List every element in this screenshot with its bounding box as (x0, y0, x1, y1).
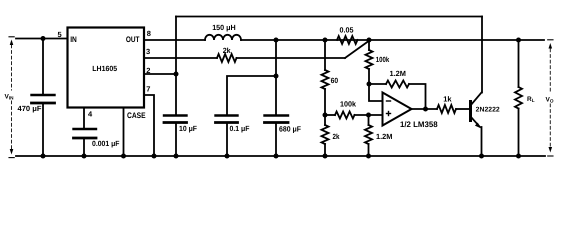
svg-text:OUT: OUT (126, 35, 140, 44)
svg-text:1.2M: 1.2M (376, 132, 393, 141)
svg-text:100k: 100k (340, 100, 357, 109)
svg-text:470 μF: 470 μF (18, 104, 42, 113)
wire pin4 stub (83, 108, 85, 130)
svg-text:IN: IN (70, 35, 77, 44)
Vin dimension arrow (11, 45, 13, 149)
wire IC ground stub (123, 108, 125, 157)
wire emitter to ground (481, 127, 483, 156)
op-amp U2 1/2 LM358 (383, 93, 412, 126)
wire inductor to output (241, 39, 544, 41)
wire pin3 sense line (144, 57, 217, 59)
svg-text:2k: 2k (333, 132, 341, 141)
node minus input junction (367, 82, 372, 87)
svg-text:60: 60 (331, 76, 339, 85)
svg-text:VO: VO (546, 97, 554, 104)
node inductor output junction (274, 38, 279, 43)
op-amp U1 box: regulator LH1605 (68, 28, 145, 108)
wire divider drop (324, 40, 326, 70)
node plus input junction (366, 113, 371, 118)
node shunt left junction (323, 38, 328, 43)
capacitor C3 10uF (164, 114, 187, 116)
capacitor C1 470uF (42, 39, 44, 96)
node pin2 junction (174, 72, 179, 77)
wire 100k to plus input (355, 114, 383, 116)
svg-text:1k: 1k (443, 95, 452, 104)
resistor R1 2k (pin3) (217, 54, 237, 62)
svg-text:1/2 LM358: 1/2 LM358 (400, 120, 438, 129)
wire pin8 output line (144, 39, 205, 41)
resistor R4 2k (322, 125, 329, 144)
capacitor C4 0.1uF (216, 114, 238, 116)
svg-text:7: 7 (146, 84, 150, 93)
inductor L1 150uH (205, 35, 241, 40)
svg-text:100k: 100k (376, 55, 390, 64)
resistor R5 100k horizontal (325, 114, 335, 116)
wire RL to ground (518, 109, 520, 157)
wire 1k to base (456, 108, 470, 110)
resistor R7 100k vertical (368, 40, 370, 50)
capacitor C5 680uF (265, 114, 289, 116)
svg-text:0.001 μF: 0.001 μF (92, 139, 120, 148)
resistor R9 1k (437, 105, 456, 113)
svg-text:LH1605: LH1605 (92, 64, 117, 73)
wire ground rail (16, 155, 545, 157)
wire op-amp output (412, 108, 438, 110)
svg-text:2N2222: 2N2222 (476, 106, 500, 113)
svg-text:1.2M: 1.2M (390, 69, 407, 78)
resistor R8 1.2M feedback (369, 83, 386, 85)
wire feedback to output (409, 84, 426, 109)
svg-text:5: 5 (58, 30, 62, 39)
svg-text:8: 8 (147, 29, 151, 38)
wire 680uF drop (275, 40, 277, 116)
wire diagonal sense tap (345, 41, 369, 58)
wire 2k to ground (324, 144, 326, 156)
capacitor C2 0.001uF (74, 128, 97, 130)
wire 60 to node (324, 89, 326, 125)
resistor R6 1.2M vertical (368, 115, 370, 125)
wire 100k to minus node (368, 69, 370, 84)
wire pin3 line to diagonal (237, 57, 346, 59)
wire pin2 stub (144, 73, 176, 75)
wire feedback vertical left (175, 17, 177, 116)
wire collector to feedback (481, 17, 483, 93)
resistor R3 60 (322, 70, 329, 89)
wire minus input (369, 84, 383, 101)
wire feedback top line (176, 16, 482, 18)
svg-text:CASE: CASE (127, 111, 146, 120)
resistor R2 0.05 shunt (337, 36, 358, 44)
svg-text:2k: 2k (223, 46, 232, 55)
wire 0.1uF branch (227, 76, 276, 116)
svg-text:RL: RL (527, 96, 535, 103)
svg-text:VIN: VIN (5, 94, 15, 101)
transistor Q1 2N2222 (469, 102, 472, 121)
svg-text:0.05: 0.05 (340, 26, 354, 35)
svg-text:0.1 μF: 0.1 μF (230, 124, 250, 133)
resistor RL load (518, 40, 520, 87)
svg-text:150 μH: 150 μH (212, 23, 236, 32)
wire 1.2M to ground (368, 144, 370, 156)
Vo dimension arrow (549, 49, 551, 148)
node 0.1uF branch junction (274, 74, 279, 79)
node input/470uF junction (41, 36, 46, 41)
svg-text:3: 3 (146, 47, 150, 56)
wire pin7 CASE to ground (144, 95, 154, 156)
node shunt right junction (367, 38, 372, 43)
svg-text:10 μF: 10 μF (179, 124, 197, 133)
svg-text:680 μF: 680 μF (279, 125, 301, 134)
node divider junction (323, 113, 328, 118)
wire input line (16, 38, 68, 40)
node output junction (423, 107, 428, 112)
node RL top junction (516, 38, 521, 43)
